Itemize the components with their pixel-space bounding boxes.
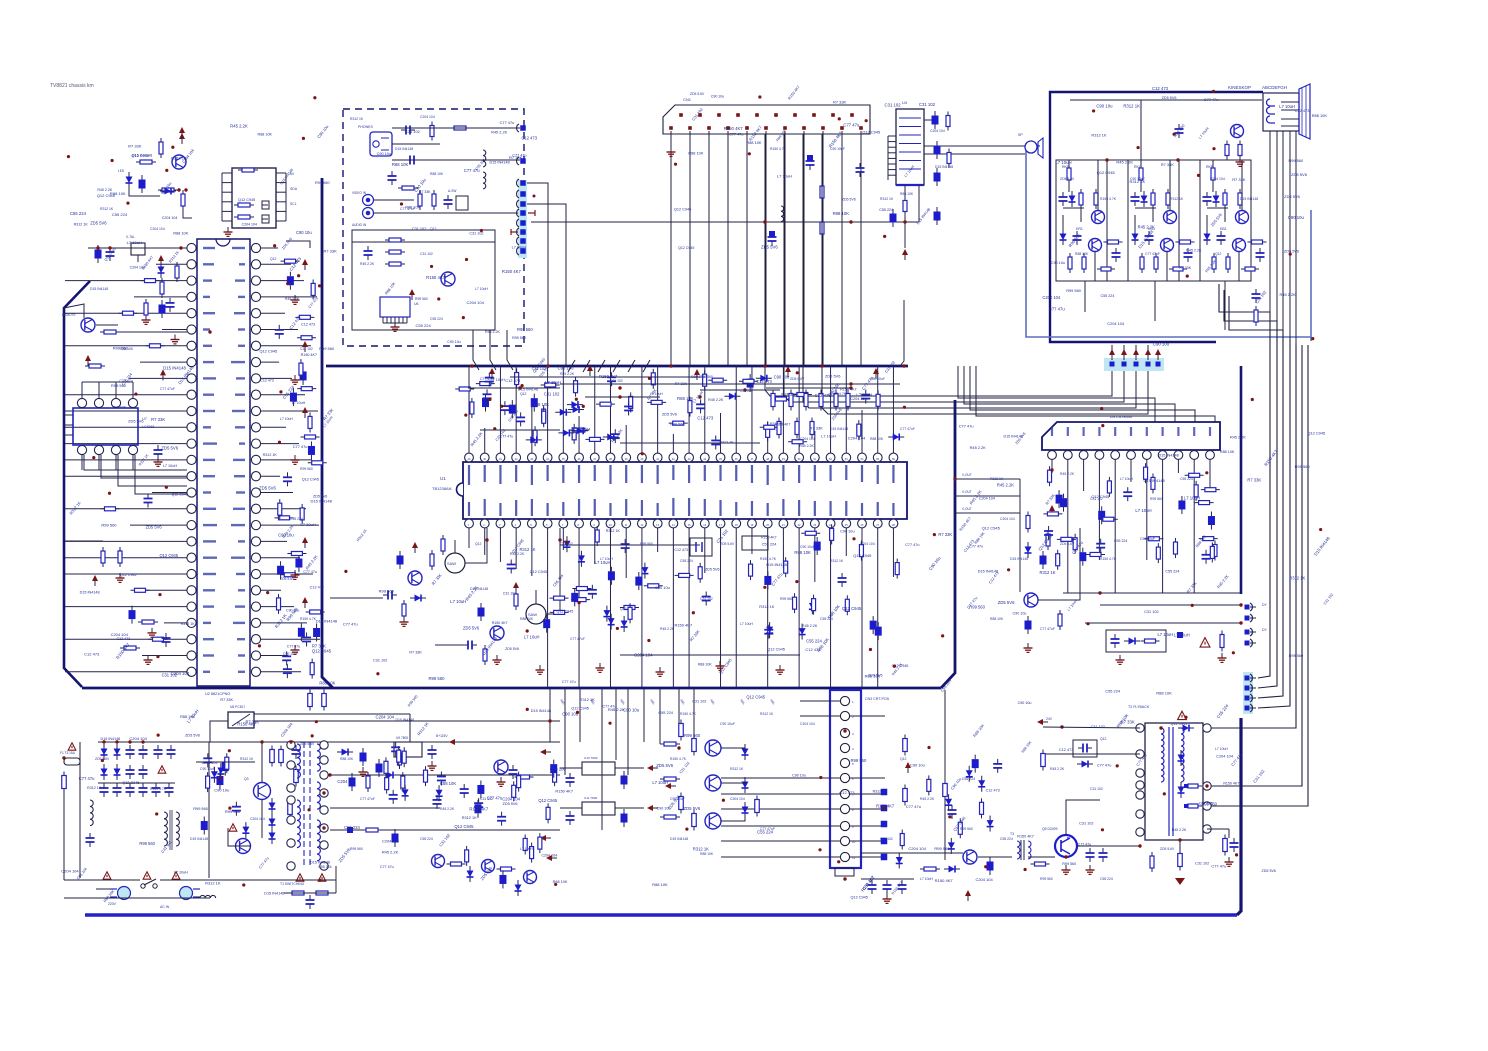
secondary diode D-s1 (337, 751, 353, 753)
svg-text:C204 104: C204 104 (162, 216, 178, 220)
svg-text:Q12 C945: Q12 C945 (538, 798, 557, 803)
snubber resistors primary (271, 746, 273, 767)
svg-text:R99 560: R99 560 (700, 375, 713, 379)
svg-text:R150 4K7: R150 4K7 (301, 353, 317, 357)
svg-text:RKB: RKB (1206, 165, 1214, 169)
svg-text:R150 4K7: R150 4K7 (724, 126, 744, 131)
svg-text:R88 10K: R88 10K (120, 347, 134, 351)
wire av mid (392, 159, 520, 161)
svg-text:C77 47uF: C77 47uF (570, 637, 585, 641)
svg-text:ZD5 5V6: ZD5 5V6 (1291, 172, 1308, 177)
svg-text:C12 473: C12 473 (301, 322, 315, 326)
svg-text:R88 10K: R88 10K (180, 715, 195, 719)
ground heater (1239, 157, 1241, 162)
svg-text:C55 224: C55 224 (112, 212, 128, 217)
opto wires (254, 713, 410, 715)
CN1 pins top row (679, 113, 683, 117)
capacitor C-u4a (932, 116, 939, 125)
svg-text:R312 1K: R312 1K (873, 789, 888, 793)
svg-text:R99 560: R99 560 (319, 346, 335, 351)
B+ arrow (449, 739, 455, 745)
svg-text:Q12 C945: Q12 C945 (122, 781, 139, 785)
reg wires (560, 767, 582, 769)
CN3 left wires (800, 700, 840, 702)
svg-text:L7 10uH: L7 10uH (524, 634, 539, 639)
zener ZD1 (160, 262, 162, 278)
svg-text:Q12 C945: Q12 C945 (571, 706, 589, 711)
svg-text:L7 10uH: L7 10uH (475, 287, 488, 291)
driver transformer T3 (1020, 840, 1022, 860)
svg-text:ZD5 5V6: ZD5 5V6 (128, 418, 143, 423)
svg-text:R99 560: R99 560 (101, 522, 117, 527)
svg-text:D15 IN4148: D15 IN4148 (90, 287, 108, 291)
sandcastle wire (861, 840, 1140, 842)
resistor R-KB5 (1213, 253, 1215, 273)
svg-text:D15 IN4148: D15 IN4148 (518, 387, 538, 391)
main bottom border (82, 687, 941, 690)
svg-text:R99 560: R99 560 (1150, 497, 1163, 501)
U3 pin label marks (1051, 427, 1053, 436)
resistor ladder right of U1 top (766, 387, 852, 389)
svg-text:R99 560: R99 560 (225, 809, 241, 814)
svg-text:C77 47u: C77 47u (303, 570, 317, 574)
svg-text:R312 1K: R312 1K (759, 604, 774, 609)
svg-text:Q12 C945: Q12 C945 (678, 246, 694, 250)
svg-text:C77 47uF: C77 47uF (1145, 252, 1160, 256)
ground U6 (394, 322, 396, 327)
svg-text:C31 102: C31 102 (692, 700, 706, 704)
svg-text:C77 47u: C77 47u (959, 424, 974, 429)
main transformer T1 core (303, 742, 305, 868)
svg-text:ZD5 5V6: ZD5 5V6 (868, 673, 882, 677)
svg-text:R7 33K: R7 33K (114, 405, 127, 409)
AV input dashed block border (343, 109, 524, 346)
sec rail3 components (347, 827, 353, 833)
svg-text:R45 2.2K: R45 2.2K (802, 624, 818, 628)
svg-text:R45 2.2K: R45 2.2K (560, 372, 575, 376)
svg-text:R99 560: R99 560 (139, 841, 155, 846)
svg-text:RKG: RKG (1134, 165, 1142, 169)
FBT bottom gnd (1175, 878, 1185, 885)
svg-text:R150 4K7: R150 4K7 (840, 387, 857, 391)
svg-text:C77 47u: C77 47u (729, 133, 743, 137)
CN1 pin drop wires (670, 131, 672, 366)
svg-text:D15 IN4148: D15 IN4148 (1158, 453, 1178, 457)
secondary rail3 (330, 829, 560, 831)
U10 out arrow (647, 765, 653, 771)
left wire row (88, 247, 187, 249)
resistor R-KB3 (1239, 189, 1241, 209)
svg-text:D15 IN4148: D15 IN4148 (316, 619, 338, 624)
svg-text:R45 2.2K: R45 2.2K (920, 797, 935, 801)
coil L-cn1 (781, 206, 784, 222)
svg-text:C204 104: C204 104 (979, 496, 995, 500)
U1 pin labels bottom (468, 502, 470, 516)
svg-text:C31 102: C31 102 (373, 659, 387, 663)
resistor R-av1 (431, 122, 433, 141)
cap C-m1 (157, 745, 159, 750)
U1 pin labels top (468, 465, 470, 485)
svg-text:ZD5 5V6: ZD5 5V6 (998, 600, 1015, 605)
svg-text:R88 10K: R88 10K (340, 757, 354, 761)
hdrive mid cluster (928, 775, 930, 795)
output arrows group3 (1245, 676, 1250, 681)
thick right vertical bus lower (1237, 718, 1241, 915)
svg-text:R99 560: R99 560 (969, 605, 985, 610)
headphone jack J1 (370, 132, 392, 156)
warning triangle FBT (1178, 711, 1187, 719)
hdrive vertical wire (944, 690, 946, 860)
CRT socket CN7 (1263, 93, 1299, 131)
svg-text:Q12 C945: Q12 C945 (454, 824, 474, 829)
capacitor C-u4e (934, 212, 941, 221)
svg-text:D15 IN4148: D15 IN4148 (1144, 478, 1166, 483)
output arrows group3 highlight (1243, 672, 1253, 714)
vcc U6 (409, 289, 415, 295)
svg-text:C204 104: C204 104 (129, 736, 147, 741)
U3 pin circles (1048, 451, 1057, 460)
svg-text:R45 2.2K: R45 2.2K (360, 262, 375, 266)
opto coupler U8 (228, 712, 254, 728)
svg-text:D15 IN4148: D15 IN4148 (670, 837, 688, 841)
capacitor C-KR1 (1062, 192, 1064, 197)
capacitor C-p1 (295, 745, 297, 750)
diode D-KG2 (1134, 229, 1136, 245)
svg-text:R99 560: R99 560 (960, 827, 973, 831)
capacitor C-u7 (157, 445, 159, 450)
svg-text:L7 10uH: L7 10uH (450, 599, 466, 604)
extra junction dots scattered (67, 155, 70, 158)
resistor R-av2 (450, 127, 470, 129)
svg-text:C12 473: C12 473 (310, 585, 324, 589)
svg-text:R99 560: R99 560 (415, 297, 428, 301)
flyback protection row (1106, 630, 1166, 652)
svg-text:ZD5 5V6: ZD5 5V6 (705, 567, 719, 571)
grounds below U1 (539, 665, 541, 670)
connector CN3 body (830, 690, 861, 868)
U7 top pins (77, 398, 86, 407)
svg-text:Q12 C945: Q12 C945 (842, 606, 862, 611)
FBT bottom resistor (1179, 850, 1181, 871)
capacitor C-av4 (447, 195, 449, 200)
svg-text:C77 47u: C77 47u (843, 122, 860, 127)
svg-text:C55 224: C55 224 (290, 517, 303, 521)
svg-text:R7 33K: R7 33K (151, 417, 165, 422)
U3 pin wires down (1051, 459, 1053, 473)
svg-text:C90 10uF: C90 10uF (800, 545, 815, 549)
svg-text:Q12 C945: Q12 C945 (850, 896, 867, 900)
U5 wire right (286, 241, 310, 248)
reg caps (431, 745, 433, 750)
vcc arrows above U1 (489, 368, 495, 374)
svg-text:R45 2.2K: R45 2.2K (1138, 224, 1155, 229)
keyboard vcc (92, 575, 98, 581)
svg-text:C77 47u: C77 47u (1049, 307, 1066, 312)
svg-text:C12 473: C12 473 (756, 379, 772, 384)
svg-text:D15 IN4148: D15 IN4148 (830, 427, 848, 431)
svg-text:R312 1K: R312 1K (990, 477, 1004, 481)
svg-text:TV8821 chassis km: TV8821 chassis km (50, 83, 94, 89)
CN3 right resistors (904, 735, 906, 756)
svg-text:Q12 C945: Q12 C945 (159, 553, 178, 558)
output arrows group1 (1245, 605, 1250, 610)
svg-text:R99 560: R99 560 (1062, 862, 1076, 866)
svg-text:L7 10uH: L7 10uH (1184, 496, 1200, 501)
svg-text:Q12 C945: Q12 C945 (120, 573, 136, 577)
U5 pin ticks right (276, 172, 286, 174)
svg-text:R99 560: R99 560 (684, 733, 701, 738)
svg-text:R312 1K: R312 1K (1091, 133, 1106, 137)
stub wires out of center right border (955, 478, 1020, 480)
svg-text:ZD5 5V6: ZD5 5V6 (825, 374, 841, 379)
svg-text:Q12 C945: Q12 C945 (1097, 170, 1116, 175)
U11 caps (569, 811, 571, 816)
CN3 bottom tab (835, 868, 854, 876)
driver wires (659, 688, 661, 744)
CN3 right wires (850, 715, 885, 717)
capacitor C-KG1 (1134, 192, 1136, 197)
svg-text:C55 224: C55 224 (318, 865, 331, 869)
vert wires (1019, 479, 1021, 592)
svg-text:C204 104: C204 104 (634, 652, 653, 657)
resistor R-KB4 (1248, 241, 1267, 243)
svg-text:C31 102: C31 102 (1090, 787, 1103, 791)
CRT amp cell KR box (1056, 160, 1107, 281)
U10 caps (569, 773, 571, 778)
svg-text:C55 224: C55 224 (658, 711, 673, 715)
svg-text:C90 10uF: C90 10uF (200, 767, 215, 771)
svg-text:U1: U1 (440, 476, 446, 481)
RGB bus line 3 (803, 134, 1136, 408)
psu right cluster (440, 771, 442, 776)
svg-text:L7 10uH: L7 10uH (163, 464, 178, 468)
svg-text:R99 560: R99 560 (1040, 877, 1053, 881)
resistor R-z2 (161, 278, 163, 298)
svg-text:CN1: CN1 (683, 97, 692, 102)
svg-text:C12 473: C12 473 (1295, 108, 1310, 113)
svg-text:L7 10uH: L7 10uH (777, 174, 792, 179)
opto q comps (512, 765, 514, 770)
U7 output bus (84, 455, 187, 470)
svg-text:C55 224: C55 224 (1114, 539, 1127, 543)
svg-text:R88 10K: R88 10K (1312, 113, 1328, 118)
svg-text:T1 SWITCHING: T1 SWITCHING (280, 882, 305, 886)
svg-text:C31 102: C31 102 (1079, 821, 1093, 825)
svg-text:R7 33K: R7 33K (419, 190, 431, 194)
svg-text:ZD5 5.6V: ZD5 5.6V (95, 757, 110, 761)
svg-text:D15 IN4148: D15 IN4148 (1010, 557, 1028, 561)
resistor R-KG3 (1167, 189, 1169, 209)
U2 left pin circles (187, 243, 196, 252)
svg-text:C31 102: C31 102 (405, 129, 420, 134)
svg-text:R99 560: R99 560 (640, 542, 653, 546)
svg-text:ZD5 5V6: ZD5 5V6 (1262, 869, 1276, 873)
resistor R-KB7 (1241, 268, 1259, 270)
svg-text:F1 T3.15A: F1 T3.15A (60, 751, 76, 755)
resistor R-heater2 (1239, 141, 1241, 160)
svg-text:R45 2.2K: R45 2.2K (230, 124, 248, 129)
svg-text:C55 224: C55 224 (806, 639, 822, 644)
audio amplifier IC U4 (896, 109, 924, 185)
SAW1 wires (330, 597, 383, 599)
svg-text:R88 10K: R88 10K (1156, 691, 1172, 696)
primary switch Q3 (254, 783, 271, 800)
svg-text:R312 1K: R312 1K (350, 117, 364, 121)
svg-text:R45 2.2K: R45 2.2K (970, 445, 987, 450)
svg-text:C77 47u: C77 47u (1204, 98, 1219, 102)
svg-text:Q12: Q12 (430, 227, 437, 231)
CN3 right caps (881, 789, 888, 796)
svg-text:ZD5 5V6: ZD5 5V6 (662, 413, 677, 417)
svg-text:C12 473: C12 473 (697, 415, 714, 420)
svg-text:R45 2.2K: R45 2.2K (485, 330, 501, 334)
svg-text:L7 10uH: L7 10uH (920, 877, 933, 881)
resistor R-z1 (176, 262, 178, 282)
svg-text:D15 IN4148: D15 IN4148 (264, 892, 284, 896)
svg-text:C55 224: C55 224 (420, 837, 433, 841)
resistor R-u5a (238, 169, 258, 171)
svg-text:C204 104: C204 104 (975, 877, 993, 882)
svg-text:R99 560: R99 560 (780, 597, 793, 601)
Q2 wires (96, 324, 118, 326)
U5 pin ticks left (222, 172, 232, 174)
crystal X1 (262, 204, 268, 206)
CRT top wire rail (1070, 99, 1262, 101)
hdrive wires (861, 852, 963, 854)
svg-text:C77 47uF: C77 47uF (900, 427, 915, 431)
svg-text:SP: SP (1018, 133, 1023, 137)
svg-text:ZD5 5.6V: ZD5 5.6V (300, 742, 315, 746)
svg-text:ZD5 5.6V: ZD5 5.6V (790, 377, 805, 381)
svg-text:R150 4K7: R150 4K7 (674, 622, 693, 627)
vcc top (179, 127, 185, 133)
svg-text:R7 33K: R7 33K (323, 248, 337, 253)
gnd z (145, 315, 147, 320)
CRT cells top rail (1056, 159, 1248, 161)
capacitor C-hot1 (1089, 848, 1091, 853)
grounds deflection (1119, 655, 1121, 660)
svg-text:Q12 C945: Q12 C945 (556, 610, 573, 614)
psu bottom grounds (362, 767, 364, 772)
primary Q4 (236, 839, 251, 854)
svg-text:R45 2.2K: R45 2.2K (997, 483, 1014, 488)
svg-text:R7 33K: R7 33K (312, 644, 326, 649)
svg-text:C77 47u: C77 47u (79, 776, 95, 781)
svg-text:C31 102: C31 102 (300, 347, 313, 351)
resistor R-av5 (433, 190, 435, 210)
svg-text:C55 224: C55 224 (1100, 294, 1114, 298)
diode D-q1 (139, 180, 146, 189)
AV block inner box (352, 230, 495, 330)
svg-text:B+115V: B+115V (436, 734, 448, 738)
svg-text:C77 47u: C77 47u (1211, 864, 1226, 869)
RGB bus line 4 (822, 134, 1148, 414)
right bus wire to FBT P pin (1210, 345, 1302, 786)
left components column A (85, 365, 105, 367)
svg-text:ZD5 5V6: ZD5 5V6 (145, 524, 162, 529)
svg-text:L7 10uH: L7 10uH (1279, 104, 1295, 109)
svg-text:DY: DY (1262, 628, 1268, 632)
resistor R-KB2 (1224, 189, 1226, 209)
transistor Q-KG1 (1164, 211, 1177, 224)
svg-text:C204 104: C204 104 (850, 397, 866, 401)
svg-text:D15 IN4148: D15 IN4148 (395, 718, 414, 722)
svg-text:C12 473: C12 473 (1152, 86, 1169, 91)
CRT socket wires (1281, 101, 1299, 103)
resistor R-heater1 (1226, 141, 1228, 160)
svg-text:ZD5 5V6: ZD5 5V6 (1284, 249, 1299, 253)
connector CN6 to CRT (1104, 358, 1164, 371)
svg-text:C90 10uF: C90 10uF (1130, 177, 1145, 181)
svg-text:R45 2.2K: R45 2.2K (799, 444, 814, 448)
psu-border drop wires (564, 688, 566, 775)
svg-text:R88 10K: R88 10K (677, 396, 694, 401)
svg-text:R88 10K: R88 10K (440, 781, 456, 786)
svg-text:Q12: Q12 (1215, 252, 1222, 256)
svg-text:D15 IN4148: D15 IN4148 (470, 587, 488, 591)
resistor R-cn1a (821, 182, 823, 202)
CRT cells bottom rail (1060, 280, 1245, 282)
cluster above U1 (630, 392, 632, 412)
vcc Q1 (179, 133, 185, 139)
left/center shared vertical border (322, 178, 333, 688)
svg-text:L7 10uH: L7 10uH (174, 871, 188, 875)
svg-text:R45 2.2K: R45 2.2K (440, 807, 455, 811)
svg-text:R312 1K: R312 1K (100, 207, 114, 211)
resistor R-hd1 (944, 780, 946, 801)
resistor R-KR4 (1104, 241, 1123, 243)
svg-text:ZD5 5.6V: ZD5 5.6V (720, 542, 735, 546)
svg-text:Q12 C945: Q12 C945 (259, 348, 277, 353)
U3 long wires (1063, 592, 1241, 594)
transistor Q-KR2 (1089, 239, 1102, 252)
reset transistor Q1 (172, 155, 186, 169)
svg-text:C204 104: C204 104 (800, 722, 815, 726)
svg-text:C77 47uF: C77 47uF (400, 207, 415, 211)
RCA jack audio (363, 208, 374, 219)
svg-text:C90 10uF: C90 10uF (870, 377, 885, 381)
svg-text:C90 10u: C90 10u (1096, 104, 1113, 109)
resistor R-av4 (419, 190, 421, 210)
FBT right snubber cap (1233, 838, 1235, 843)
CRT amp cell KB box (1200, 160, 1251, 281)
svg-text:LED: LED (118, 169, 125, 173)
vcc arrow audio (902, 249, 908, 255)
svg-text:C204 104: C204 104 (502, 797, 520, 802)
svg-text:R7 33K: R7 33K (1161, 162, 1174, 167)
capacitor C-KR2 (1115, 248, 1117, 253)
svg-text:L7 10uH: L7 10uH (652, 780, 668, 785)
resistor R-KG4 (1176, 241, 1195, 243)
svg-text:R150 4.7K: R150 4.7K (680, 712, 697, 716)
svg-text:KB1: KB1 (1220, 227, 1227, 231)
resistor R-z3 (145, 299, 147, 319)
svg-text:R312 1K: R312 1K (580, 697, 595, 702)
svg-text:R99 560: R99 560 (1295, 464, 1311, 469)
speaker SP1 (1025, 141, 1037, 153)
resistor R-KR5 (1069, 253, 1071, 273)
Q1 collector resistor (160, 138, 162, 158)
cell wires (1140, 160, 1142, 168)
svg-text:C12 473: C12 473 (1059, 748, 1073, 752)
capacitor C-av3 (391, 171, 393, 176)
svg-text:ZD5 5V6: ZD5 5V6 (185, 734, 200, 738)
svg-text:R312 1K: R312 1K (263, 453, 278, 457)
RGB bus line 2 (784, 134, 1124, 402)
sec transistor Q6 (432, 855, 445, 868)
svg-text:C90 10uF: C90 10uF (283, 652, 298, 656)
vcc cn3 (905, 762, 911, 768)
